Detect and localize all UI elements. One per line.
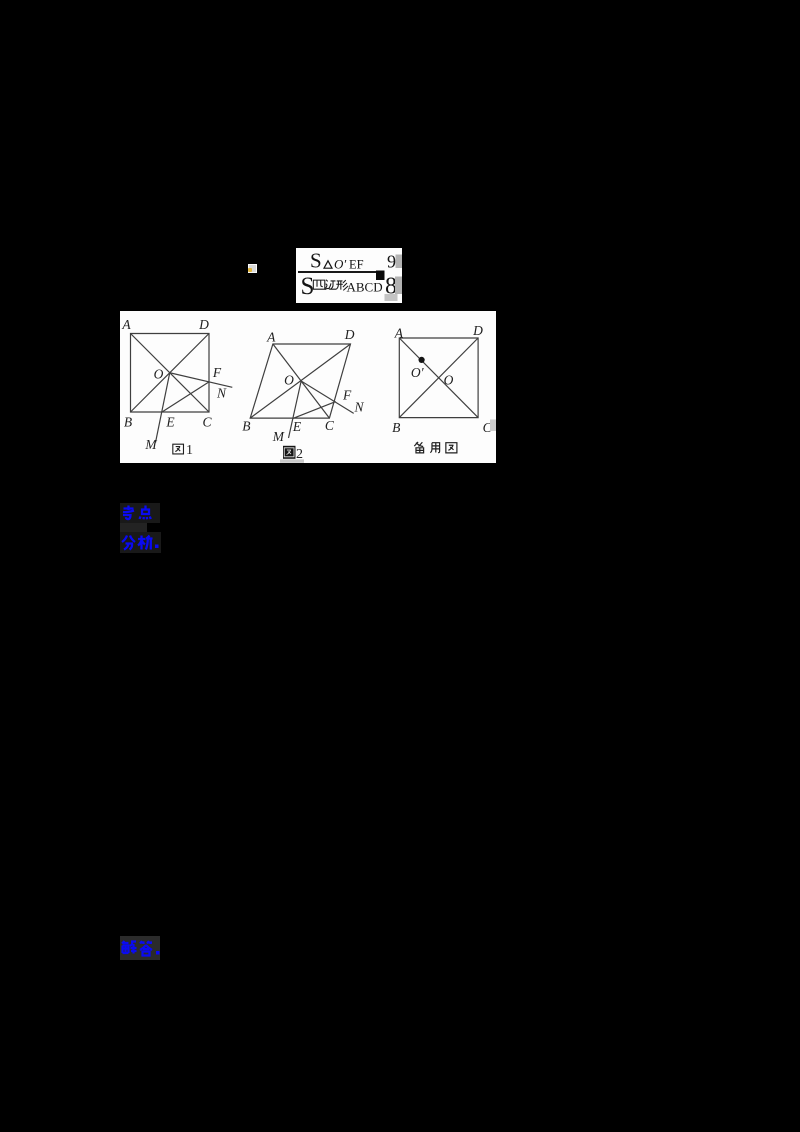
fig1 square ABCD <box>131 334 210 413</box>
fig2 diagonal AC <box>273 344 330 418</box>
svg-text:E: E <box>165 415 175 430</box>
svg-text:1: 1 <box>186 443 193 458</box>
svg-text:ABCD: ABCD <box>347 280 383 295</box>
triangle of subscript <box>324 261 332 268</box>
caption fig3: 备用图 <box>414 442 457 453</box>
svg-text:O′: O′ <box>411 365 425 380</box>
svg-text:E: E <box>292 419 302 434</box>
black blob (damaged equals) <box>376 271 385 281</box>
fig2 line O to M <box>289 381 302 438</box>
svg-text:M: M <box>144 437 157 452</box>
svg-text:D: D <box>344 327 355 342</box>
caption fig2: 图2 (dark boxed) <box>283 446 296 459</box>
fig3 diagonal BD <box>399 338 478 418</box>
CJK 四 <box>313 280 324 289</box>
svg-text:D: D <box>198 317 209 332</box>
svg-text:O: O <box>444 373 454 388</box>
blue label 解答: with dark bg <box>120 936 161 960</box>
svg-text:A: A <box>266 330 276 345</box>
分 <box>122 536 135 550</box>
答 <box>140 941 152 956</box>
gray patches <box>396 255 403 269</box>
fig2 line O to N <box>301 381 354 413</box>
fig1 line O to N <box>170 373 233 388</box>
考 <box>123 505 134 519</box>
图 <box>446 443 457 453</box>
svg-text:A: A <box>394 326 404 341</box>
gray smudge <box>120 523 147 533</box>
svg-text:EF: EF <box>349 258 364 272</box>
fig3 square ABCD <box>399 338 478 418</box>
fig1 diagonal AC <box>131 334 210 413</box>
点 <box>140 505 151 519</box>
svg-text:B: B <box>392 420 400 435</box>
fig1 segment E to F <box>162 382 209 412</box>
svg-text:B: B <box>124 415 132 430</box>
svg-text:N: N <box>216 386 227 401</box>
用 <box>430 443 439 453</box>
svg-text:D: D <box>472 323 483 338</box>
svg-text:9: 9 <box>387 252 396 272</box>
svg-text:O: O <box>154 367 164 382</box>
fig3 diagonal AC <box>399 338 478 418</box>
svg-text:A: A <box>121 317 131 332</box>
blue label 考点 with dark bg <box>120 503 160 523</box>
svg-text:F: F <box>342 388 352 403</box>
svg-text:S: S <box>310 249 322 273</box>
svg-text:C: C <box>202 415 212 430</box>
caption fig1: 图1 <box>173 444 184 454</box>
svg-text:M: M <box>272 429 285 444</box>
blue label 分析: with dark bg <box>120 532 162 553</box>
fig2 diagonal BD <box>250 344 350 418</box>
备 <box>414 442 423 453</box>
figures white box <box>120 311 496 463</box>
fig1 line O to M <box>156 373 170 443</box>
fraction bar <box>298 271 379 273</box>
svg-text:O: O <box>284 373 294 388</box>
fig1 diagonal BD <box>131 334 210 413</box>
fig3 point O' dot <box>419 357 425 363</box>
gray strip under caption <box>280 459 304 462</box>
fig2 segment E to F <box>293 402 336 419</box>
svg-text:B: B <box>242 419 250 434</box>
small icon square with gold blob <box>248 264 257 273</box>
CJK 形 <box>336 280 348 290</box>
svg-text:F: F <box>212 365 222 380</box>
svg-text:N: N <box>353 400 364 415</box>
fig2 parallelogram ABCD <box>250 344 350 418</box>
svg-text:S: S <box>301 273 315 300</box>
svg-text:C: C <box>325 418 335 433</box>
formula white box <box>296 248 402 303</box>
svg-text:O′: O′ <box>334 257 346 272</box>
CJK 边 <box>325 280 336 290</box>
解 <box>122 941 137 954</box>
gray square right of fig3 C <box>490 420 496 432</box>
析 <box>138 536 153 550</box>
